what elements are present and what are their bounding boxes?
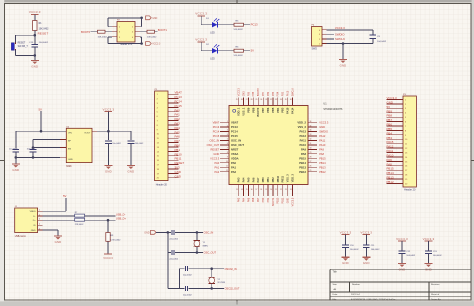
- svg-text:PB12: PB12: [387, 180, 394, 184]
- svg-text:PC14: PC14: [213, 130, 220, 134]
- crystal Y2 32.768K: [209, 269, 226, 289]
- wire LED 2 to resistor: [217, 50, 234, 52]
- svg-text:4: 4: [227, 134, 228, 136]
- U1 right pin 32 PA11: [300, 138, 317, 142]
- svg-text:USB_D-: USB_D-: [116, 212, 126, 216]
- capacitor C1 10u (input): [9, 148, 19, 152]
- svg-text:VCC3.3: VCC3.3: [210, 156, 220, 160]
- U1 bottom pin PA7: [256, 177, 261, 196]
- svg-text:104,0402: 104,0402: [27, 148, 36, 150]
- svg-text:PA12: PA12: [387, 145, 394, 149]
- svg-text:PA12: PA12: [319, 134, 326, 138]
- wire C7 to OSC32 in: [189, 268, 224, 270]
- U1 right pin 29 PA8: [301, 152, 317, 156]
- svg-text:10u,0402: 10u,0402: [9, 148, 18, 150]
- pin stub left row 2: [112, 31, 117, 33]
- USB pin 4 ID: [33, 224, 42, 228]
- P1 pin 17 stub: [157, 165, 179, 167]
- svg-text:3V3: 3V3: [175, 166, 181, 170]
- P1 pin 14 stub: [157, 151, 179, 153]
- wire down to ground (SWD): [342, 44, 344, 60]
- svg-text:PB0: PB0: [175, 144, 181, 148]
- junction gnd rail 2: [32, 156, 35, 159]
- op-amp U1 STM32F103C8T6 body: [229, 106, 308, 185]
- svg-text:1: 1: [227, 121, 228, 123]
- power VCC3.3 (reset pull-up): [29, 10, 41, 20]
- scrollbar zone tick mark: [236, 301, 238, 304]
- svg-text:VBAT: VBAT: [213, 121, 220, 125]
- P1 pin 10 stub: [157, 134, 179, 136]
- svg-text:Revision: Revision: [431, 284, 440, 286]
- U1 left pin 7 NRST: [220, 147, 239, 151]
- svg-text:VCC3.3: VCC3.3: [387, 96, 398, 100]
- wire D- to R7: [43, 215, 75, 217]
- svg-text:PB5: PB5: [273, 91, 275, 96]
- svg-text:PA5: PA5: [247, 197, 250, 202]
- node RESET junction: [34, 34, 37, 37]
- USB connector J1 body: [15, 206, 38, 233]
- svg-text:Sheet of: Sheet of: [431, 293, 440, 296]
- U1 left pin 10 PA0: [220, 161, 237, 165]
- svg-text:PC13: PC13: [231, 125, 238, 129]
- resistor R4 10K (BOOT1): [140, 30, 157, 38]
- P1 pin 5 stub: [157, 112, 179, 114]
- svg-text:PB10: PB10: [276, 175, 280, 182]
- P3 pin 19 stub: [387, 179, 409, 181]
- capacitor C5 22p: [169, 230, 179, 240]
- U1 bottom pin VDD_3: [290, 174, 295, 196]
- svg-text:VCC3.3: VCC3.3: [195, 38, 207, 42]
- svg-text:PA4: PA4: [175, 126, 181, 130]
- wire VOUT rail: [97, 130, 131, 132]
- svg-text:PB1: PB1: [267, 197, 270, 202]
- svg-text:29: 29: [256, 99, 258, 101]
- svg-text:PB10: PB10: [277, 197, 280, 204]
- svg-text:OSC_IN: OSC_IN: [204, 231, 214, 235]
- svg-text:SWCLK: SWCLK: [292, 88, 294, 97]
- P3 pin 16 stub: [387, 166, 409, 168]
- svg-text:VCC3.3: VCC3.3: [319, 121, 329, 125]
- capacitor C11 104 decoupling: [363, 245, 380, 257]
- junction VIN rail: [40, 130, 43, 133]
- svg-text:PB3: PB3: [283, 91, 285, 96]
- U1 top pin PB6: [265, 98, 270, 113]
- ground (C3): [104, 166, 112, 174]
- svg-text:VBUS: VBUS: [30, 211, 36, 213]
- svg-text:10: 10: [226, 161, 228, 163]
- P1 pin 3 stub: [157, 103, 179, 105]
- svg-text:22p,0402: 22p,0402: [183, 275, 193, 277]
- wire pin1 loop to top rail: [108, 18, 142, 27]
- svg-text:22p,0402: 22p,0402: [169, 258, 179, 260]
- svg-text:OSC_IN: OSC_IN: [210, 138, 220, 142]
- svg-text:32.768K: 32.768K: [217, 282, 225, 284]
- U1 left pin 1 VBAT: [220, 121, 238, 125]
- P1 pin 18 stub: [157, 169, 179, 171]
- capacitor C15 104: [29, 42, 49, 47]
- USB pin 2 D-: [33, 215, 42, 219]
- junction D+ pull-up: [107, 219, 110, 222]
- svg-text:10K,0402: 10K,0402: [147, 36, 157, 38]
- P1 pin 1 stub: [157, 94, 179, 96]
- svg-text:VCC3.3: VCC3.3: [396, 237, 408, 241]
- svg-text:VCC3.3: VCC3.3: [423, 237, 435, 241]
- power VCC3.3 (C11): [360, 231, 372, 245]
- junction SWD ground: [342, 42, 345, 45]
- svg-text:PA7: PA7: [175, 139, 181, 143]
- svg-text:PB5: PB5: [387, 127, 393, 131]
- U1 bottom pin PA5: [246, 177, 251, 196]
- svg-text:22p,0402: 22p,0402: [183, 294, 193, 296]
- svg-text:LED: LED: [210, 59, 215, 61]
- svg-text:PC13: PC13: [213, 125, 220, 129]
- junction top rail: [140, 17, 143, 20]
- svg-text:PB13: PB13: [387, 176, 394, 180]
- power VCC3.3 (LED 2): [195, 38, 207, 51]
- svg-text:22p,0402: 22p,0402: [169, 238, 179, 240]
- svg-text:PB8: PB8: [251, 107, 255, 113]
- svg-text:Title: Title: [333, 271, 338, 274]
- svg-text:VCC3.3: VCC3.3: [102, 107, 114, 111]
- wire to BOOT1 label: [155, 31, 158, 33]
- USB pin 5 GND: [31, 228, 43, 232]
- svg-text:VDD_3: VDD_3: [291, 174, 295, 183]
- P3 pin 9 stub: [387, 135, 408, 137]
- svg-text:RESET: RESET: [175, 161, 185, 165]
- svg-text:VSS_3: VSS_3: [286, 174, 290, 183]
- P3 pin 13 stub: [387, 152, 409, 154]
- wire reset button bottom: [16, 50, 35, 55]
- svg-text:PA9: PA9: [319, 147, 324, 151]
- svg-text:PA0: PA0: [214, 161, 219, 165]
- svg-text:VCC3.3: VCC3.3: [360, 231, 372, 235]
- wire 32k rail up: [179, 269, 181, 289]
- svg-text:Header 20: Header 20: [156, 183, 168, 186]
- svg-text:PB15: PB15: [319, 156, 326, 160]
- resistor R6 510 (LED 2): [234, 47, 244, 58]
- U1 left pin 4 PC15: [220, 134, 238, 138]
- wire resistor to net label: [244, 24, 251, 26]
- svg-text:30: 30: [310, 148, 312, 150]
- junction crystal cap rail: [167, 231, 170, 234]
- svg-text:PB6: PB6: [268, 91, 270, 96]
- svg-text:8MHz: 8MHz: [203, 245, 208, 247]
- svg-text:PA9: PA9: [301, 147, 307, 151]
- U1 top pin VSS_1: [241, 98, 246, 116]
- svg-text:VCC3.3: VCC3.3: [291, 197, 294, 206]
- svg-text:BOOT0: BOOT0: [81, 30, 91, 34]
- svg-text:PA7: PA7: [257, 197, 260, 202]
- wire C5 to OSC_IN node: [175, 231, 203, 233]
- svg-text:PB7: PB7: [387, 118, 393, 122]
- svg-text:VDD_2: VDD_2: [297, 121, 306, 125]
- svg-text:GND: GND: [105, 169, 112, 173]
- svg-text:PB9: PB9: [246, 107, 250, 113]
- editor chrome top strip: [0, 0, 474, 3]
- svg-text:PA2: PA2: [231, 170, 237, 174]
- svg-text:14: 14: [241, 189, 243, 191]
- svg-text:BOOT0: BOOT0: [256, 107, 260, 116]
- svg-text:NRST: NRST: [231, 147, 239, 151]
- svg-text:BOOT1: BOOT1: [272, 197, 275, 206]
- svg-text:10K,0402: 10K,0402: [39, 28, 50, 30]
- svg-text:VCC3.3: VCC3.3: [103, 256, 113, 260]
- svg-text:GND: GND: [152, 18, 157, 20]
- USB pin 3 D+: [33, 219, 43, 223]
- svg-text:26: 26: [310, 166, 312, 168]
- svg-text:SWDIO: SWDIO: [319, 130, 328, 134]
- wire to LED 1: [201, 24, 212, 26]
- svg-text:PB1: PB1: [175, 148, 181, 152]
- svg-text:PB11: PB11: [282, 197, 285, 203]
- svg-text:PC13: PC13: [175, 95, 183, 99]
- svg-text:27: 27: [246, 99, 248, 101]
- P3 pin 1 stub: [387, 99, 408, 101]
- ground (USB): [54, 236, 62, 244]
- U1 bottom pin PB2: [270, 177, 275, 196]
- svg-text:104,0402: 104,0402: [39, 42, 49, 44]
- ground (C10): [342, 257, 350, 265]
- svg-text:9: 9: [227, 157, 228, 159]
- wire caps bottoms to GND pin: [16, 152, 60, 157]
- svg-text:PA14: PA14: [291, 107, 295, 114]
- svg-text:PA15: PA15: [287, 90, 290, 96]
- wire VIN rail: [16, 130, 66, 132]
- wire cap C2 top: [32, 140, 34, 149]
- svg-text:PB15: PB15: [387, 167, 394, 171]
- U1 left pin 3 PC14: [220, 130, 238, 134]
- wire VBUS to 5V: [43, 198, 67, 211]
- svg-text:GND: GND: [144, 231, 150, 234]
- wire cap rail down: [167, 232, 169, 252]
- svg-text:GND: GND: [387, 100, 393, 104]
- power VCC3.3 (C13): [423, 237, 435, 251]
- U1 left pin 11 PA1: [220, 165, 237, 169]
- wire boot0 row: [105, 31, 112, 33]
- svg-text:4: 4: [39, 224, 40, 226]
- P3 pin 12 stub: [387, 148, 409, 150]
- U1 left pin 5 OSC_IN: [220, 138, 241, 142]
- junction OSC_IN: [196, 231, 199, 234]
- U1 bottom pin PB11: [280, 175, 285, 196]
- resistor R1 10K pull-up: [33, 21, 50, 31]
- svg-text:104,0402: 104,0402: [371, 249, 381, 251]
- svg-text:OSC32_OUT: OSC32_OUT: [225, 288, 240, 291]
- junction EN/cap: [32, 146, 35, 149]
- header P4 (SWD) body: [312, 25, 323, 47]
- wire 5V down to VIN rail: [40, 111, 42, 131]
- svg-text:STM32F103C8T6: STM32F103C8T6: [323, 108, 343, 111]
- P1 pin 16 stub: [157, 160, 179, 162]
- U1 left pin 6 OSC_OUT: [220, 143, 244, 147]
- svg-text:VSS_2: VSS_2: [298, 125, 307, 129]
- svg-text:USB-micro: USB-micro: [15, 235, 27, 238]
- svg-text:VSSA: VSSA: [231, 152, 238, 156]
- svg-text:RESET: RESET: [18, 43, 26, 45]
- wire SWD pin1 rail: [327, 43, 373, 45]
- P3 pin 8 stub: [387, 130, 408, 132]
- P1 pin 6 stub: [157, 116, 179, 118]
- wire SWD pin4 rail to cap: [327, 29, 373, 31]
- svg-text:PB8: PB8: [387, 114, 393, 118]
- svg-text:OSC_OUT: OSC_OUT: [207, 143, 220, 147]
- svg-text:7: 7: [227, 148, 228, 150]
- svg-text:PA7: PA7: [256, 177, 260, 182]
- svg-text:VCC3.3: VCC3.3: [239, 87, 241, 96]
- svg-text:GND: GND: [340, 63, 347, 67]
- P1 pin 12 stub: [157, 143, 179, 145]
- title block frame: [330, 269, 471, 300]
- svg-text:104,0402: 104,0402: [350, 249, 360, 251]
- U1 bottom pin VSS_3: [285, 174, 290, 196]
- svg-text:Header 20: Header 20: [404, 189, 416, 192]
- svg-text:PA15: PA15: [387, 140, 394, 144]
- U1 top pin BOOT0: [256, 98, 261, 117]
- svg-text:SWCLK: SWCLK: [335, 37, 345, 41]
- svg-text:PC13: PC13: [251, 23, 258, 27]
- pin numbers row 3: [119, 37, 134, 39]
- svg-text:VBAT: VBAT: [231, 121, 238, 125]
- editor chrome left strip: [0, 0, 4, 306]
- junction at reset cap bottom: [34, 54, 37, 57]
- U1 left pin 12 PA2: [220, 170, 237, 174]
- svg-text:104,0402: 104,0402: [377, 41, 387, 43]
- svg-text:PB13: PB13: [299, 165, 306, 169]
- capacitor C12 104 decoupling: [399, 251, 416, 263]
- svg-text:25: 25: [236, 99, 238, 101]
- pin numbers row 1: [119, 27, 134, 29]
- svg-text:12: 12: [226, 170, 228, 172]
- U1 right pin 35 VSS_2: [298, 125, 317, 129]
- wire cap C1 top: [15, 131, 17, 148]
- U1 right pin 36 VDD_2: [297, 121, 317, 125]
- svg-text:PA12: PA12: [299, 134, 306, 138]
- U1 bottom pin PB10: [275, 175, 280, 196]
- pin stub right row 2: [135, 31, 140, 33]
- svg-text:BOOT1: BOOT1: [158, 28, 168, 32]
- editor chrome right strip: [472, 0, 474, 306]
- svg-text:PA2: PA2: [214, 170, 219, 174]
- svg-text:PA5: PA5: [246, 177, 250, 182]
- U1 left pin 2 PC13: [220, 125, 238, 129]
- power VCC3.3 (LED 1): [195, 12, 207, 25]
- P3 pin 7 stub: [387, 126, 408, 128]
- svg-text:PA3: PA3: [175, 122, 181, 126]
- svg-text:5: 5: [39, 228, 40, 230]
- sheet zone tick left: [0, 160, 5, 162]
- wire cap to ground node: [34, 47, 36, 60]
- svg-text:VOUT: VOUT: [84, 132, 91, 134]
- svg-text:27: 27: [310, 161, 312, 163]
- power VCC3.3 (C12): [396, 237, 408, 251]
- svg-text:GND: GND: [363, 261, 370, 265]
- svg-text:PA11: PA11: [319, 138, 326, 142]
- junction OSC32_IN: [210, 267, 213, 270]
- header P1 (Header 20) body: [155, 89, 168, 181]
- svg-text:PB6: PB6: [387, 123, 393, 127]
- svg-text:VCC3.3: VCC3.3: [29, 10, 41, 14]
- ground (C4): [127, 166, 135, 174]
- ground (regulator input caps): [12, 164, 20, 172]
- svg-text:PA10: PA10: [387, 153, 394, 157]
- U1 top pin PB9: [246, 98, 251, 113]
- svg-text:PB9: PB9: [248, 91, 250, 96]
- wire gnd to C5: [156, 231, 171, 233]
- wire R8 to USB_D+: [85, 219, 116, 221]
- resistor R8 22R (D+): [75, 218, 85, 226]
- U1 bottom pin PB1: [265, 177, 270, 196]
- svg-text:GND: GND: [287, 198, 290, 204]
- junction gnd rail 1: [15, 156, 18, 159]
- svg-text:SW-KB_T: SW-KB_T: [18, 46, 29, 48]
- svg-text:PB0: PB0: [262, 197, 265, 202]
- svg-text:OSC_OUT: OSC_OUT: [204, 251, 217, 255]
- svg-text:PB3: PB3: [281, 107, 285, 113]
- power port VCC3.3 (boot bottom rail): [146, 42, 161, 46]
- svg-text:GND: GND: [175, 174, 181, 178]
- svg-text:VCC3.3: VCC3.3: [195, 12, 207, 16]
- U1 top pin VDD_1: [236, 98, 241, 116]
- SWD pin 1 stub: [319, 44, 327, 46]
- svg-text:22R,0402: 22R,0402: [75, 224, 85, 226]
- P1 pin 13 stub: [157, 147, 179, 149]
- P3 pin 5 stub: [387, 117, 408, 119]
- svg-text:PC15: PC15: [231, 134, 238, 138]
- P3 pin 14 stub: [387, 157, 409, 159]
- svg-text:PB14: PB14: [319, 161, 326, 165]
- svg-text:19: 19: [265, 189, 267, 191]
- svg-text:30: 30: [260, 99, 262, 101]
- svg-text:PA8: PA8: [387, 162, 393, 166]
- P1 pin 11 stub: [157, 138, 179, 140]
- svg-text:35: 35: [285, 99, 287, 101]
- svg-text:VCC3.3: VCC3.3: [152, 44, 161, 46]
- svg-text:File:: File:: [333, 299, 338, 301]
- svg-text:GND: GND: [127, 169, 134, 173]
- svg-text:16: 16: [251, 189, 253, 191]
- U1 top pin PB4: [275, 98, 280, 113]
- USB pin 1 VBUS: [30, 210, 43, 214]
- svg-text:34: 34: [280, 99, 282, 101]
- P3 pin 11 stub: [387, 144, 408, 146]
- svg-text:VDD_1: VDD_1: [237, 107, 241, 116]
- wire BP to cap rail: [33, 139, 60, 141]
- resistor R9 1.5K pull-up: [106, 233, 121, 242]
- svg-text:PA5: PA5: [175, 130, 181, 134]
- scrollbar track bottom: [0, 301, 474, 306]
- pin stub right row 1: [135, 26, 140, 28]
- U1 pin1 mark: [233, 109, 236, 112]
- wire D+ to R8: [43, 219, 75, 221]
- power VCC3.3 (VOUT): [102, 107, 114, 131]
- svg-text:104,0402: 104,0402: [433, 255, 443, 257]
- svg-text:8: 8: [227, 152, 228, 154]
- P3 pin 17 stub: [387, 170, 409, 172]
- svg-text:VBAT: VBAT: [175, 91, 183, 95]
- svg-text:VCC3.3: VCC3.3: [340, 231, 352, 235]
- svg-text:21: 21: [275, 189, 277, 191]
- svg-text:E:\STM32\PCB\..\ USB_ISHD_T123: E:\STM32\PCB\..\ USB_ISHD_T123(4Ou) SchD…: [351, 299, 396, 301]
- svg-text:PA0: PA0: [231, 161, 237, 165]
- wire to LED 2: [201, 50, 212, 52]
- svg-text:104,0402: 104,0402: [135, 143, 144, 145]
- svg-text:RESET: RESET: [38, 32, 49, 36]
- svg-text:17: 17: [256, 189, 258, 191]
- wire C6 to OSC_OUT: [175, 252, 203, 254]
- ground (SWD): [339, 60, 347, 68]
- svg-text:Date:: Date:: [333, 293, 339, 296]
- svg-text:PA6: PA6: [251, 177, 255, 182]
